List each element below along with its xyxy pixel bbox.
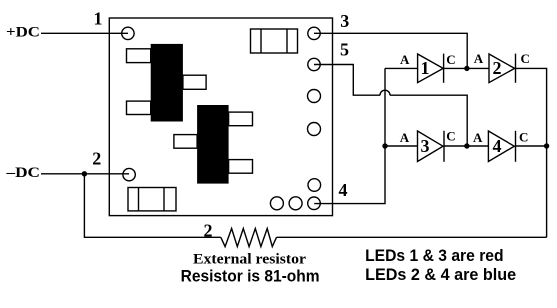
svg-text:–DC: –DC [5,165,40,181]
svg-text:1: 1 [421,58,430,78]
svg-text:2: 2 [204,221,213,241]
svg-text:5: 5 [340,39,349,59]
svg-text:A: A [400,52,410,67]
svg-text:A: A [473,130,483,145]
svg-text:LEDs 1 & 3 are red: LEDs 1 & 3 are red [365,246,504,265]
svg-text:3: 3 [340,11,349,31]
svg-text:A: A [400,130,410,145]
svg-text:+DC: +DC [6,25,40,41]
svg-text:4: 4 [339,180,348,200]
svg-text:C: C [521,51,530,66]
svg-text:Resistor is 81-ohm: Resistor is 81-ohm [181,266,320,285]
svg-text:C: C [446,129,455,144]
svg-text:C: C [519,130,528,145]
svg-text:A: A [474,51,484,66]
svg-text:3: 3 [421,136,430,156]
svg-text:2: 2 [493,58,502,78]
svg-text:External resistor: External resistor [193,251,306,267]
svg-text:4: 4 [493,136,502,156]
svg-text:C: C [446,52,455,67]
svg-text:1: 1 [94,9,103,29]
svg-text:LEDs 2 & 4 are blue: LEDs 2 & 4 are blue [365,265,516,284]
svg-text:2: 2 [92,148,101,168]
